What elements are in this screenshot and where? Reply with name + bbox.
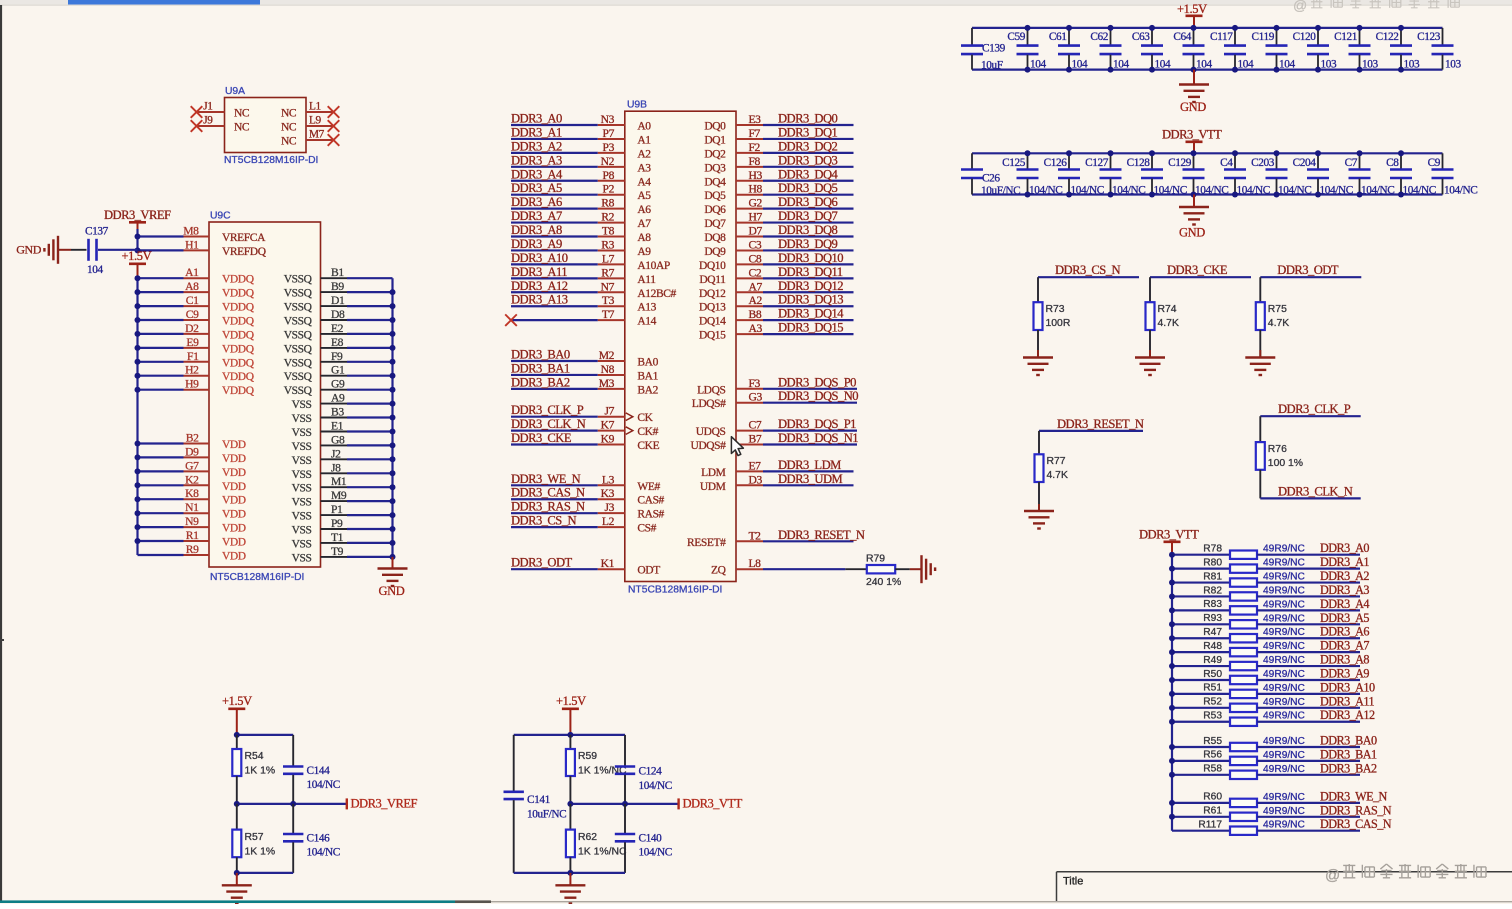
svg-text:LDQS#: LDQS# — [692, 398, 726, 410]
svg-text:R9: R9 — [186, 543, 199, 556]
svg-text:DDR3_A2: DDR3_A2 — [511, 139, 562, 153]
svg-text:49R9/NC: 49R9/NC — [1263, 558, 1305, 569]
svg-text:49R9/NC: 49R9/NC — [1263, 764, 1305, 775]
pin E2 VSSQ — [321, 333, 348, 335]
wire net DDR3_CKE — [511, 443, 598, 445]
pin E1 VSS — [321, 431, 348, 433]
svg-text:VDD: VDD — [222, 509, 246, 521]
svg-text:DDR3_WE_N: DDR3_WE_N — [1320, 789, 1388, 803]
svg-text:R7: R7 — [601, 266, 614, 279]
svg-text:49R9/NC: 49R9/NC — [1263, 792, 1305, 803]
svg-text:DDR3_A8: DDR3_A8 — [511, 223, 562, 237]
wire net DDR3_DQS_N1 — [736, 444, 763, 446]
svg-text:G7: G7 — [185, 459, 199, 472]
svg-text:U9A: U9A — [225, 86, 245, 97]
wire +1.5V bus (VDDQ/VDD) — [136, 278, 138, 555]
wire net DDR3_A11 — [511, 277, 598, 279]
resistor R78 49R9/NC to DDR3_A0 — [1172, 554, 1230, 556]
pin D9 VDD — [138, 456, 184, 458]
resistor R93 49R9/NC to DDR3_A5 — [1172, 623, 1230, 625]
top toolbar bar — [0, 0, 1512, 5]
svg-text:D8: D8 — [331, 308, 345, 321]
svg-text:DDR3_A9: DDR3_A9 — [1320, 666, 1369, 680]
wire net DDR3_BA1 — [511, 374, 598, 376]
resistor R77 4.7K — [1035, 454, 1044, 482]
pin A1 VDDQ — [138, 277, 184, 279]
ground GND (cap bank 2) — [1193, 195, 1195, 207]
svg-text:DDR3_A10: DDR3_A10 — [1320, 680, 1375, 694]
ground (R75) — [1245, 356, 1275, 358]
wire net DDR3_BA2 — [511, 388, 598, 390]
svg-text:49R9/NC: 49R9/NC — [1263, 544, 1305, 555]
svg-text:T9: T9 — [331, 545, 344, 558]
svg-text:DQ14: DQ14 — [699, 316, 726, 328]
svg-text:R93: R93 — [1203, 613, 1222, 624]
svg-text:VSS: VSS — [292, 483, 312, 495]
svg-text:104: 104 — [1030, 59, 1046, 71]
svg-text:T8: T8 — [602, 225, 615, 238]
svg-text:R55: R55 — [1203, 736, 1222, 747]
svg-text:DDR3_DQ1: DDR3_DQ1 — [778, 125, 838, 139]
capacitor C122 103 — [1400, 28, 1402, 45]
svg-text:T2: T2 — [749, 529, 762, 542]
svg-text:DDR3_VREF: DDR3_VREF — [104, 208, 171, 222]
svg-text:G3: G3 — [749, 391, 763, 404]
svg-text:DDR3_A0: DDR3_A0 — [1320, 541, 1369, 555]
wire net DDR3_A0 — [511, 124, 598, 126]
svg-text:A1: A1 — [637, 134, 651, 146]
svg-text:VSS: VSS — [292, 469, 312, 481]
svg-text:104/NC: 104/NC — [639, 780, 672, 792]
svg-text:DDR3_CAS_N: DDR3_CAS_N — [511, 486, 585, 500]
svg-text:R82: R82 — [1203, 585, 1222, 596]
wire R79 to ground — [895, 568, 910, 570]
svg-text:49R9/NC: 49R9/NC — [1263, 655, 1305, 666]
svg-text:GND: GND — [1180, 100, 1206, 114]
svg-text:104/NC: 104/NC — [1029, 185, 1062, 197]
wire ZQ to R79 — [845, 568, 867, 570]
svg-text:G9: G9 — [331, 378, 345, 391]
svg-text:VSSQ: VSSQ — [284, 385, 313, 397]
svg-text:1K 1%: 1K 1% — [245, 766, 276, 777]
svg-text:DDR3_A8: DDR3_A8 — [1320, 653, 1369, 667]
svg-text:103: 103 — [1362, 59, 1378, 71]
pin B1 VSSQ — [321, 277, 348, 279]
svg-text:R3: R3 — [601, 238, 614, 251]
resistor R49 49R9/NC to DDR3_A8 — [1172, 665, 1230, 667]
svg-text:E7: E7 — [749, 459, 762, 472]
wire R75 to ground — [1259, 330, 1261, 357]
svg-text:K8: K8 — [185, 487, 199, 500]
svg-text:G8: G8 — [331, 433, 345, 446]
svg-text:NT5CB128M16IP-DI: NT5CB128M16IP-DI — [210, 572, 304, 583]
wire net DDR3_DQ11 — [736, 277, 763, 279]
resistor R58 49R9/NC to DDR3_BA2 — [1172, 774, 1230, 776]
svg-text:B9: B9 — [331, 280, 344, 293]
svg-text:M2: M2 — [599, 349, 615, 362]
svg-text:104/NC: 104/NC — [639, 847, 672, 859]
resistor R57 1K 1% — [236, 804, 238, 830]
svg-text:A2: A2 — [749, 294, 763, 307]
svg-text:VSSQ: VSSQ — [284, 316, 313, 328]
svg-text:C127: C127 — [1085, 157, 1109, 169]
wire net DDR3_DQ14 — [736, 319, 763, 321]
svg-text:BA1: BA1 — [637, 370, 658, 382]
svg-text:RAS#: RAS# — [637, 509, 664, 521]
capacitor C204 104/NC — [1317, 153, 1319, 169]
wire middle node DDR3_VREF — [237, 803, 347, 805]
wire net DDR3_DQ5 — [736, 194, 763, 196]
svg-text:240 1%: 240 1% — [866, 577, 901, 588]
pin T7 U9B — [511, 319, 598, 321]
svg-text:A0: A0 — [637, 121, 651, 133]
wire DDR3_CLK_P to R76 — [1259, 416, 1261, 442]
svg-text:DDR3_DQ9: DDR3_DQ9 — [778, 237, 838, 251]
svg-text:RESET#: RESET# — [687, 537, 726, 549]
pin J9 U9A (no connect) — [197, 125, 225, 127]
wire net DDR3_DQ13 — [736, 305, 763, 307]
svg-text:+1.5V: +1.5V — [1177, 2, 1207, 16]
svg-text:DDR3_DQ0: DDR3_DQ0 — [778, 112, 838, 126]
pin R9 VDD — [138, 554, 184, 556]
svg-text:A3: A3 — [637, 162, 651, 174]
svg-text:C129: C129 — [1168, 157, 1192, 169]
svg-text:DDR3_A5: DDR3_A5 — [511, 181, 562, 195]
svg-text:104/NC: 104/NC — [1278, 185, 1311, 197]
capacitor C9 104/NC — [1442, 153, 1444, 169]
svg-text:VSS: VSS — [292, 441, 312, 453]
svg-text:DDR3_A10: DDR3_A10 — [511, 251, 568, 265]
svg-text:D2: D2 — [185, 322, 199, 335]
chip U9A NT5CB128M16IP-DI (NC block) — [225, 98, 307, 153]
svg-text:DDR3_CLK_N: DDR3_CLK_N — [511, 417, 586, 431]
pin G8 VSS — [321, 444, 348, 446]
svg-text:DDR3_CAS_N: DDR3_CAS_N — [1320, 817, 1392, 831]
svg-text:C59: C59 — [1007, 31, 1025, 43]
resistor R53 49R9/NC to DDR3_A12 — [1172, 721, 1230, 723]
svg-text:104/NC: 104/NC — [307, 779, 340, 791]
capacitor C124 104/NC — [624, 735, 626, 766]
svg-text:R8: R8 — [601, 197, 614, 210]
capacitor C117 104 — [1234, 28, 1236, 45]
wire net DDR3_RAS_N — [511, 512, 598, 514]
svg-text:L7: L7 — [602, 252, 615, 265]
bottom progress teal bar — [0, 900, 455, 903]
svg-text:R53: R53 — [1203, 711, 1222, 722]
svg-text:C2: C2 — [749, 266, 762, 279]
svg-text:R77: R77 — [1047, 456, 1066, 467]
svg-text:Title: Title — [1063, 876, 1083, 888]
svg-text:104/NC: 104/NC — [1112, 185, 1145, 197]
resistor R59 1K 1%/NC — [569, 735, 571, 749]
wire net DDR3_A10 — [511, 263, 598, 265]
svg-text:DDR3_BA0: DDR3_BA0 — [1320, 734, 1377, 748]
svg-text:DQ3: DQ3 — [704, 162, 726, 174]
svg-text:LDM: LDM — [701, 467, 726, 479]
svg-text:R75: R75 — [1268, 304, 1287, 315]
svg-text:J9: J9 — [203, 115, 213, 127]
wire net DDR3_WE_N — [511, 484, 598, 486]
pin T1 VSS — [321, 542, 348, 544]
pin A8 VDDQ — [138, 291, 184, 293]
svg-text:B3: B3 — [331, 406, 344, 419]
svg-text:DDR3_DQS_N1: DDR3_DQS_N1 — [778, 431, 858, 445]
svg-text:DQ8: DQ8 — [704, 232, 726, 244]
svg-text:DQ11: DQ11 — [699, 274, 726, 286]
svg-text:R52: R52 — [1203, 697, 1222, 708]
pin D1 VSSQ — [321, 305, 348, 307]
svg-text:U9B: U9B — [627, 100, 647, 111]
svg-text:@: @ — [1293, 0, 1307, 13]
svg-text:C120: C120 — [1293, 31, 1317, 43]
wire net DDR3_RESET_N — [736, 540, 763, 542]
svg-text:H3: H3 — [749, 169, 763, 182]
svg-text:DDR3_CS_N: DDR3_CS_N — [511, 514, 576, 528]
svg-text:VSS: VSS — [292, 511, 312, 523]
svg-text:C144: C144 — [307, 765, 331, 777]
svg-text:K1: K1 — [601, 557, 615, 570]
svg-text:VSSQ: VSSQ — [284, 274, 313, 286]
svg-text:49R9/NC: 49R9/NC — [1263, 669, 1305, 680]
svg-text:C4: C4 — [1220, 157, 1233, 169]
svg-text:N7: N7 — [601, 280, 615, 293]
svg-text:T7: T7 — [602, 308, 615, 321]
svg-text:L1: L1 — [309, 101, 321, 113]
svg-text:R1: R1 — [186, 529, 199, 542]
capacitor C120 103 — [1317, 28, 1319, 45]
svg-text:R51: R51 — [1203, 683, 1222, 694]
svg-text:DDR3_RESET_N: DDR3_RESET_N — [778, 528, 865, 542]
svg-text:49R9/NC: 49R9/NC — [1263, 599, 1305, 610]
svg-text:WE#: WE# — [637, 481, 660, 493]
svg-text:NC: NC — [281, 122, 297, 134]
svg-text:DQ15: DQ15 — [699, 330, 726, 342]
svg-text:A14: A14 — [637, 316, 656, 328]
svg-text:104: 104 — [1155, 59, 1171, 71]
svg-text:C9: C9 — [186, 308, 199, 321]
svg-text:A9: A9 — [331, 392, 345, 405]
svg-text:C9: C9 — [1428, 157, 1441, 169]
svg-text:E2: E2 — [331, 322, 344, 335]
svg-text:DDR3_DQ14: DDR3_DQ14 — [778, 307, 844, 321]
resistor R81 49R9/NC to DDR3_A2 — [1172, 581, 1230, 583]
capacitor C137 104 — [87, 239, 90, 261]
svg-text:G2: G2 — [749, 197, 763, 210]
svg-text:P7: P7 — [603, 127, 615, 140]
svg-text:DDR3_DQ4: DDR3_DQ4 — [778, 167, 839, 181]
svg-text:VSS: VSS — [292, 399, 312, 411]
svg-text:B1: B1 — [331, 266, 344, 279]
svg-text:N2: N2 — [601, 155, 615, 168]
svg-text:LDQS: LDQS — [697, 384, 725, 396]
svg-text:R50: R50 — [1203, 669, 1222, 680]
pin F9 VSSQ — [321, 361, 348, 363]
wire DDR3_RESET_N to R77 — [1038, 431, 1040, 454]
ground (VTT divider) — [569, 873, 571, 885]
svg-text:DDR3_A13: DDR3_A13 — [511, 293, 568, 307]
svg-text:R47: R47 — [1203, 627, 1222, 638]
pin L8 U9B ZQ — [736, 568, 763, 570]
svg-text:R79: R79 — [866, 554, 885, 565]
capacitor C139 10uF — [971, 28, 973, 45]
svg-text:F2: F2 — [749, 141, 761, 154]
svg-text:104: 104 — [1072, 59, 1088, 71]
svg-text:B2: B2 — [186, 432, 199, 445]
ground (R73) — [1023, 356, 1053, 358]
svg-text:104: 104 — [1238, 59, 1254, 71]
svg-text:+1.5V: +1.5V — [222, 694, 252, 708]
ground GND (cap bank 1) — [1193, 70, 1195, 84]
svg-text:VSS: VSS — [292, 552, 312, 564]
svg-text:49R9/NC: 49R9/NC — [1263, 683, 1305, 694]
svg-text:VDD: VDD — [222, 439, 246, 451]
svg-text:DDR3_A11: DDR3_A11 — [1320, 694, 1375, 708]
svg-text:K2: K2 — [185, 473, 199, 486]
pin M1 VSS — [321, 486, 348, 488]
svg-text:C125: C125 — [1002, 157, 1026, 169]
wire top node (VTT divider) — [514, 734, 625, 736]
wire net DDR3_DQ15 — [736, 333, 763, 335]
svg-text:J2: J2 — [331, 447, 341, 460]
svg-text:J1: J1 — [203, 101, 212, 113]
svg-text:VSSQ: VSSQ — [284, 343, 313, 355]
svg-text:VSSQ: VSSQ — [284, 288, 313, 300]
svg-text:DDR3_DQS_N0: DDR3_DQS_N0 — [778, 389, 858, 403]
svg-text:49R9/NC: 49R9/NC — [1263, 613, 1305, 624]
pin N1 VDD — [138, 512, 184, 514]
svg-text:N1: N1 — [185, 501, 199, 514]
svg-text:DQ5: DQ5 — [704, 190, 726, 202]
svg-text:VSS: VSS — [292, 427, 312, 439]
svg-text:VSS: VSS — [292, 525, 312, 537]
svg-text:A3: A3 — [749, 322, 763, 335]
wire net DDR3_A8 — [511, 235, 598, 237]
svg-text:DDR3_CLK_P: DDR3_CLK_P — [1278, 402, 1351, 416]
svg-text:VDD: VDD — [222, 551, 246, 563]
svg-text:A9: A9 — [637, 246, 651, 258]
wire DDR3_VTT bus — [1171, 555, 1173, 831]
svg-text:DDR3_DQ5: DDR3_DQ5 — [778, 181, 838, 195]
capacitor C129 104/NC — [1193, 153, 1195, 169]
svg-text:C1: C1 — [186, 294, 199, 307]
svg-text:C140: C140 — [639, 833, 663, 845]
svg-text:DQ4: DQ4 — [704, 176, 726, 188]
wire net DDR3_DQ6 — [736, 208, 763, 210]
svg-text:103: 103 — [1404, 59, 1420, 71]
svg-text:C203: C203 — [1251, 157, 1275, 169]
resistor R73 100R — [1034, 302, 1043, 330]
svg-text:L2: L2 — [602, 515, 615, 528]
pin F1 VDDQ — [138, 361, 184, 363]
svg-text:UDQS: UDQS — [696, 426, 726, 438]
svg-text:H9: H9 — [185, 378, 199, 391]
svg-text:L9: L9 — [309, 115, 322, 127]
pin D2 VDDQ — [138, 333, 184, 335]
svg-text:DDR3_A7: DDR3_A7 — [511, 209, 562, 223]
svg-text:E3: E3 — [749, 113, 762, 126]
wire net DDR3_DQS_P1 — [736, 430, 763, 432]
capacitor C4 104/NC — [1234, 153, 1236, 169]
capacitor C127 104/NC — [1110, 153, 1112, 169]
wire DDR3_ODT to R75 — [1259, 277, 1261, 302]
svg-text:DDR3_WE_N: DDR3_WE_N — [511, 472, 581, 486]
wire net DDR3_CS_N (pull resistor) — [1038, 276, 1139, 278]
svg-text:B8: B8 — [749, 308, 762, 321]
svg-text:DDR3_BA1: DDR3_BA1 — [511, 361, 570, 375]
svg-text:NC: NC — [281, 136, 297, 148]
port DDR3_VTT — [677, 798, 679, 809]
svg-text:F3: F3 — [749, 377, 761, 390]
svg-text:D3: D3 — [749, 473, 763, 486]
wire net DDR3_A1 — [511, 138, 598, 140]
svg-text:T1: T1 — [331, 531, 344, 544]
svg-text:DDR3_A2: DDR3_A2 — [1320, 569, 1369, 583]
svg-text:R61: R61 — [1203, 806, 1222, 817]
mouse cursor — [731, 437, 743, 456]
svg-text:A8: A8 — [637, 232, 651, 244]
resistor R54 1K 1% — [236, 735, 238, 749]
svg-text:C123: C123 — [1417, 31, 1441, 43]
svg-text:DDR3_A0: DDR3_A0 — [511, 112, 562, 126]
svg-text:104: 104 — [87, 264, 103, 276]
svg-text:D1: D1 — [331, 294, 345, 307]
svg-text:1K 1%/NC: 1K 1%/NC — [578, 847, 627, 858]
svg-text:P2: P2 — [603, 183, 615, 196]
svg-text:C128: C128 — [1127, 157, 1151, 169]
svg-text:N3: N3 — [601, 113, 615, 126]
svg-text:VSS: VSS — [292, 497, 312, 509]
pin H2 VDDQ — [138, 375, 184, 377]
wire net DDR3_CLK_N — [511, 430, 598, 432]
svg-text:104/NC: 104/NC — [1195, 185, 1228, 197]
pin C1 VDDQ — [138, 305, 184, 307]
svg-text:C3: C3 — [749, 238, 762, 251]
wire net DDR3_DQS_N0 — [736, 402, 763, 404]
title block border — [1057, 871, 1512, 873]
wire top bus cap bank 2 — [972, 152, 1443, 154]
svg-text:NC: NC — [234, 122, 250, 134]
svg-text:CK#: CK# — [637, 426, 658, 438]
svg-text:104/NC: 104/NC — [1361, 185, 1394, 197]
svg-text:G1: G1 — [331, 364, 345, 377]
svg-text:P1: P1 — [331, 503, 343, 516]
resistor R48 49R9/NC to DDR3_A7 — [1172, 651, 1230, 653]
resistor R56 49R9/NC to DDR3_BA1 — [1172, 760, 1230, 762]
svg-text:A1: A1 — [185, 266, 199, 279]
wire net DDR3_LDM — [736, 470, 763, 472]
svg-text:100R: 100R — [1046, 318, 1071, 329]
svg-text:1K 1%: 1K 1% — [245, 847, 276, 858]
svg-text:VDDQ: VDDQ — [222, 371, 255, 383]
svg-text:104: 104 — [1113, 59, 1129, 71]
svg-text:T3: T3 — [602, 294, 615, 307]
svg-text:DDR3_RAS_N: DDR3_RAS_N — [1320, 803, 1392, 817]
svg-text:F9: F9 — [331, 350, 343, 363]
ground GND (U9C right bus) — [392, 557, 394, 568]
svg-text:DDR3_DQ13: DDR3_DQ13 — [778, 293, 843, 307]
svg-text:VDD: VDD — [222, 537, 246, 549]
svg-text:DQ1: DQ1 — [704, 134, 726, 146]
svg-text:104: 104 — [1279, 59, 1295, 71]
chip U9C NT5CB128M16IP-DI (power block) — [209, 222, 321, 567]
ground (ZQ termination) — [920, 555, 922, 583]
top progress bar blue segment — [68, 0, 260, 5]
svg-text:VDDQ: VDDQ — [222, 385, 255, 397]
svg-text:C61: C61 — [1049, 31, 1067, 43]
wire DDR3_VREF vertical — [137, 222, 139, 230]
svg-text:DDR3_A1: DDR3_A1 — [511, 125, 562, 139]
svg-text:P3: P3 — [603, 141, 615, 154]
